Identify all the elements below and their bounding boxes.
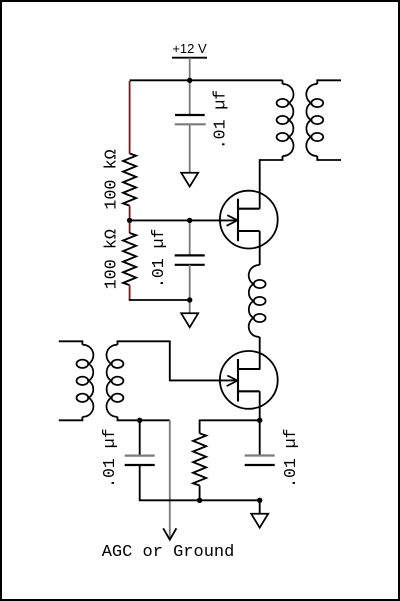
wire C3 to bottom rail (140, 465, 260, 500)
T1 secondary loop 3 (311, 133, 323, 141)
T2 secondary loop 1 (112, 360, 124, 368)
wire T2 primary top lead (59, 341, 83, 345)
gate arrow (227, 376, 238, 387)
source stub (238, 390, 260, 392)
svg-text:.01 µf: .01 µf (100, 428, 119, 487)
svg-text:100 kΩ: 100 kΩ (102, 229, 121, 289)
wire T2 primary bottom lead (59, 417, 83, 421)
channel bar (237, 199, 239, 242)
transformer T2 primary winding (82, 345, 93, 417)
+12V rail bar (172, 57, 207, 59)
node R3 bottom dot (197, 498, 202, 503)
node Vdd junction (187, 78, 192, 83)
T1 primary loop 1 (277, 99, 289, 107)
ground 2 (181, 313, 198, 327)
wire node to R2 (red) (129, 220, 131, 233)
capacitor C3 bottom plate (125, 464, 155, 466)
L2 loop 2 (254, 297, 266, 305)
wire T1 secondary top lead (317, 80, 341, 84)
wire node to C4 (259, 420, 261, 455)
resistor R1 100k zigzag (123, 154, 136, 206)
transformer T2 secondary winding (106, 345, 117, 417)
gate arrow (227, 215, 238, 226)
inductor L2 coil (249, 265, 260, 337)
capacitor C1 top plate (175, 114, 205, 116)
node cap2 bottom dot (187, 297, 192, 302)
T1 secondary loop 2 (311, 116, 323, 124)
transistor Q2 (220, 351, 278, 409)
wire T2 secondary bottom lead (118, 417, 170, 421)
capacitor C1 bottom plate (175, 123, 206, 125)
wire T1 secondary bottom lead (317, 156, 341, 160)
wire +12V to rail (189, 58, 191, 81)
wire gate rail (130, 219, 238, 221)
wire C4 to ground 3 (259, 500, 261, 513)
wire T1 primary bottom lead (260, 156, 283, 209)
channel bar (237, 359, 239, 402)
capacitor C4 bottom plate (245, 464, 275, 466)
wire rail to R1 (red) (129, 81, 131, 154)
capacitor C2 top plate (175, 254, 205, 256)
capacitor C2 bottom plate (175, 264, 205, 266)
L2 loop 1 (254, 280, 266, 288)
node Q2 source dot (257, 418, 262, 423)
capacitor C4 top plate (245, 454, 275, 456)
transformer T1 primary winding (283, 84, 294, 156)
T1 primary loop 3 (277, 133, 289, 141)
T2 primary loop 2 (77, 377, 89, 385)
ground 3 (251, 514, 268, 528)
wire Q1 source to L2 (259, 231, 261, 265)
wire top rail (130, 79, 283, 81)
wire R3 top stub (199, 420, 201, 434)
svg-text:.01 µf: .01 µf (149, 229, 168, 288)
wire C2 to node (189, 265, 191, 300)
capacitor C3 top plate (125, 455, 155, 457)
wire L2 to Q2 drain (259, 337, 261, 370)
wire R3 bottom stub (199, 486, 201, 501)
node C3 top dot (137, 418, 142, 423)
svg-text:100 kΩ: 100 kΩ (103, 149, 122, 209)
wire node to ground 2 (189, 300, 191, 313)
source stub (238, 230, 260, 232)
drain stub (238, 368, 260, 370)
T2 secondary loop 3 (112, 394, 124, 402)
wire R1 to node (red) (129, 206, 131, 221)
wire T2 secondary top lead to Q2 gate (118, 341, 238, 380)
T1 secondary loop 1 (311, 99, 323, 107)
node C4 bottom dot (257, 498, 262, 503)
transistor Q1 (220, 191, 278, 249)
transformer T1 secondary winding (306, 84, 317, 156)
wire rail corner into T1 primary (282, 80, 284, 84)
L2 loop 3 (254, 314, 266, 322)
AGC arrowhead (163, 528, 176, 539)
T2 secondary loop 2 (112, 377, 124, 385)
T1 primary loop 2 (277, 116, 289, 124)
node gate junction dot (127, 218, 132, 223)
svg-text:+12 V: +12 V (172, 41, 207, 56)
wire rail to C1 (189, 80, 191, 115)
resistor R3 zigzag (193, 433, 206, 485)
ground 1 (181, 173, 198, 187)
svg-text:.01 µf: .01 µf (281, 428, 300, 487)
wire R3 top rail (200, 419, 260, 421)
wire node to C2 (189, 220, 191, 255)
wire AGC vertical (169, 420, 171, 538)
wire Q2 source down (259, 391, 261, 420)
wire R2 bottom rail (129, 299, 190, 301)
node cap2 top dot (187, 218, 192, 223)
wire C1 to ground (189, 124, 191, 172)
svg-text:AGC or Ground: AGC or Ground (102, 543, 235, 562)
wire node to C3 (139, 420, 141, 455)
drain stub (238, 208, 260, 210)
wire R2 to bottom rail (red) (129, 285, 131, 300)
resistor R2 100k zigzag (123, 233, 136, 285)
T2 primary loop 1 (77, 360, 89, 368)
svg-text:.01 µf: .01 µf (211, 90, 230, 149)
T2 primary loop 3 (77, 394, 89, 402)
